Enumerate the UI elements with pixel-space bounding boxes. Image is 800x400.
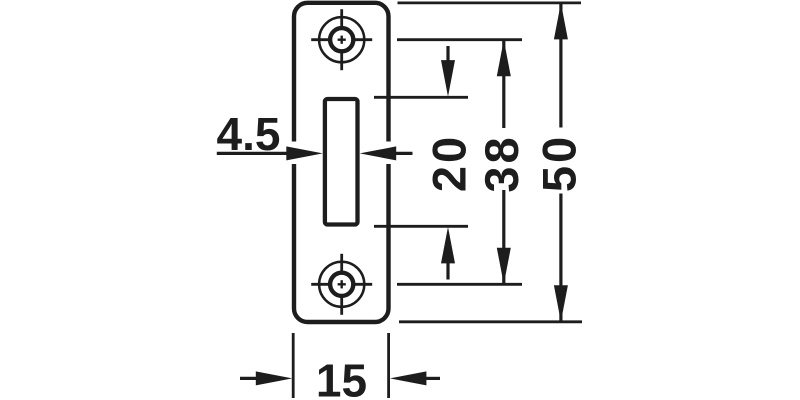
- svg-text:38: 38: [475, 134, 528, 192]
- svg-text:15: 15: [316, 355, 367, 400]
- svg-text:4.5: 4.5: [217, 108, 281, 160]
- svg-text:50: 50: [533, 134, 586, 192]
- svg-text:20: 20: [423, 134, 476, 192]
